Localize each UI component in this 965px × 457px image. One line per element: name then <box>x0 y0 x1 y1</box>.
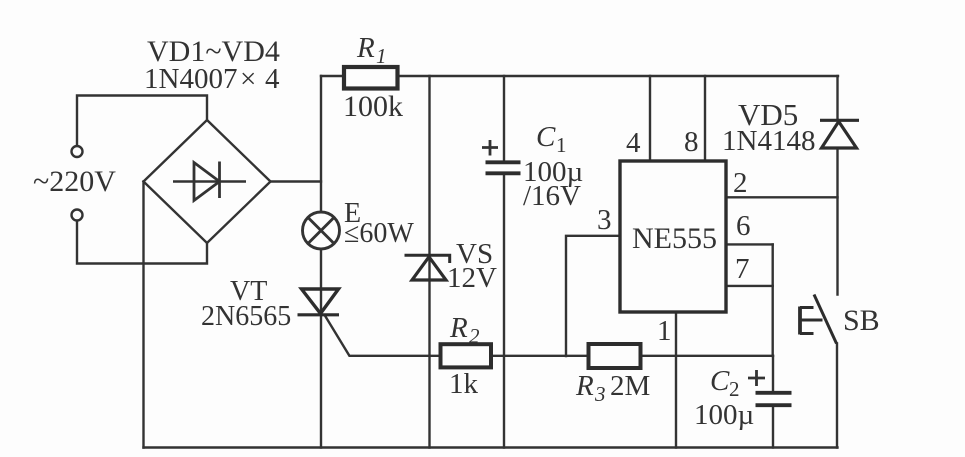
svg-text:3: 3 <box>594 382 606 406</box>
svg-text:1: 1 <box>657 315 672 347</box>
bridge rectifier VD1~VD4 diamond <box>144 120 271 243</box>
svg-text:1N4148: 1N4148 <box>722 125 815 157</box>
svg-text:SB: SB <box>843 304 880 337</box>
wire: pin6/7 vertical down to timing node <box>772 244 774 356</box>
wire: VT gate to R2 <box>326 317 441 356</box>
svg-text:/16V: /16V <box>523 180 581 212</box>
svg-text:100µ: 100µ <box>694 399 754 431</box>
wire: lamp to VT and down to bottom rail <box>320 249 322 448</box>
wire: R2 to R3 <box>491 355 589 357</box>
terminal lower ~220V <box>72 210 83 221</box>
wire: switch bottom to bottom rail <box>836 344 838 448</box>
svg-text:3: 3 <box>597 204 612 236</box>
svg-text:~220V: ~220V <box>33 165 116 198</box>
svg-text:NE555: NE555 <box>632 222 717 255</box>
wire: bottom ground rail <box>144 446 838 448</box>
wire: VD5 to pin2 junction and switch top <box>836 149 838 295</box>
wire: lower AC terminal to bridge bottom <box>77 221 207 264</box>
wire: pin 8 to rail <box>704 76 706 161</box>
resistor R2 <box>441 344 492 367</box>
wire: bridge right vertex to lamp branch <box>271 180 322 182</box>
wire: pin 3 left and down <box>566 236 620 356</box>
svg-text:2N6565: 2N6565 <box>201 301 291 332</box>
svg-text:1N4007: 1N4007 <box>144 63 237 95</box>
wire: C2 vertical lower <box>772 406 774 448</box>
thyristor VT <box>302 289 339 314</box>
wire: upper AC terminal to bridge top <box>77 96 207 147</box>
svg-text:7: 7 <box>735 253 750 285</box>
svg-text:2M: 2M <box>610 370 650 402</box>
svg-text:6: 6 <box>736 210 751 242</box>
op IC NE555 U1 <box>620 161 726 312</box>
svg-text:1: 1 <box>556 133 567 157</box>
svg-text:4: 4 <box>626 127 641 159</box>
wire: VS zener branch vertical <box>428 76 430 448</box>
wire: C1 branch vertical lower <box>503 175 505 448</box>
C1 plus sign <box>482 140 498 156</box>
svg-text:12V: 12V <box>447 262 497 294</box>
resistor R1 <box>344 67 398 89</box>
bridge inner diode wire <box>173 180 246 182</box>
capacitor C1 <box>486 162 521 173</box>
wire: pin 2 horizontal <box>726 196 838 198</box>
svg-text:4: 4 <box>265 63 280 95</box>
lamp E <box>303 212 340 249</box>
svg-text:2: 2 <box>729 377 740 401</box>
svg-text:2: 2 <box>733 167 748 199</box>
svg-text:2: 2 <box>469 324 480 348</box>
wire: right branch rail to VD5 <box>836 76 838 120</box>
wire: pin 4 to rail <box>649 76 651 161</box>
wire: pin 7 horizontal <box>726 285 773 287</box>
svg-text:1k: 1k <box>449 368 479 400</box>
resistor R3 <box>589 344 641 368</box>
switch SB actuator <box>798 307 802 335</box>
wire: R3 to C2 top <box>641 355 774 357</box>
svg-text:≤60W: ≤60W <box>344 218 414 249</box>
wire: lamp branch vertical (rail to lamp) <box>320 76 322 212</box>
svg-text:C: C <box>536 121 556 153</box>
capacitor C2 <box>756 393 792 405</box>
wire: bridge left vertex down to bottom rail <box>142 182 144 448</box>
zener diode VS <box>405 255 450 263</box>
wire: pin 6 horizontal <box>726 243 773 245</box>
svg-text:R: R <box>449 312 468 344</box>
bridge inner diode cathode bar <box>218 162 221 199</box>
svg-text:1: 1 <box>376 44 387 68</box>
wire: pin 1 down to bottom rail <box>675 312 677 448</box>
svg-text:×: × <box>240 63 256 95</box>
svg-text:R: R <box>356 32 375 64</box>
C2 plus sign <box>748 370 765 386</box>
diode VD5 <box>820 119 859 122</box>
wire: C1 branch vertical upper <box>503 76 505 161</box>
svg-text:R: R <box>575 370 594 402</box>
svg-text:C: C <box>710 365 730 397</box>
wire: top supply rail <box>321 75 838 77</box>
svg-text:8: 8 <box>684 126 699 158</box>
bridge inner diode triangle <box>194 163 220 201</box>
svg-text:100k: 100k <box>343 90 403 123</box>
wire: C2 vertical upper <box>772 356 774 392</box>
terminal upper ~220V <box>72 146 83 157</box>
VT cathode bar <box>298 313 340 316</box>
switch SB arm <box>814 295 837 344</box>
